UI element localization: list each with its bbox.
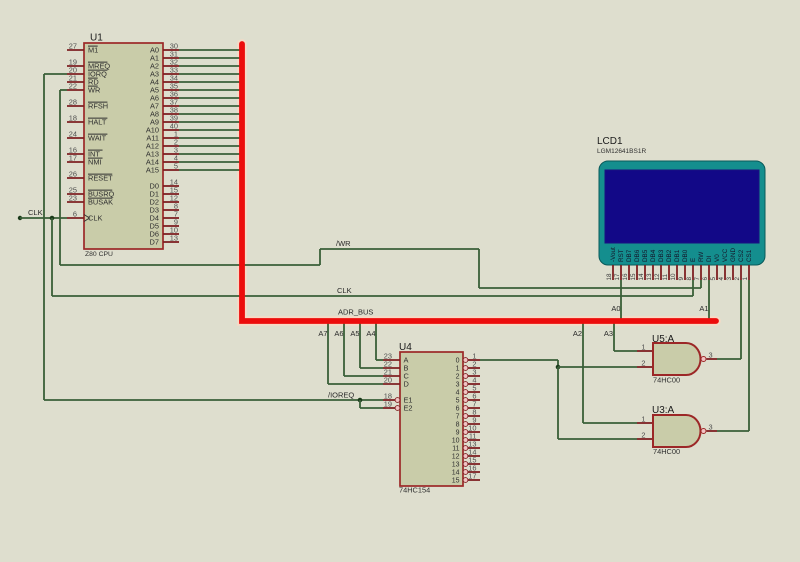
svg-text:CLK: CLK — [337, 286, 352, 295]
svg-text:16: 16 — [622, 273, 629, 281]
svg-text:E: E — [690, 258, 697, 262]
U4 pin 3 output 2 — [463, 374, 468, 379]
U4 pin 22 B — [383, 367, 400, 369]
svg-text:8: 8 — [456, 422, 460, 429]
wire A6 from bus down — [343, 322, 345, 376]
U4 pin 2 output 1 — [463, 366, 468, 371]
wire A7 to U4 — [328, 383, 383, 385]
svg-text:3: 3 — [709, 423, 713, 432]
wire A11 from U1 to address bus — [179, 137, 240, 139]
svg-text:7: 7 — [456, 414, 460, 421]
U4 pin 19 E2 (active low) — [383, 407, 395, 409]
U4 pin 23 A — [383, 359, 400, 361]
svg-text:13: 13 — [452, 462, 460, 469]
wire A2 from bus down — [582, 322, 584, 423]
U4 pin 18 E1 (active low) — [383, 399, 395, 401]
wire A3 from U1 to address bus — [179, 73, 240, 75]
svg-text:A1: A1 — [699, 304, 708, 313]
wire to U3 input 2 — [558, 438, 637, 440]
U4 pin 16 output 14 — [463, 470, 468, 475]
svg-text:V0: V0 — [714, 254, 721, 262]
wire A7 from bus down — [327, 322, 329, 384]
svg-text:RST: RST — [618, 249, 625, 262]
svg-text:20: 20 — [384, 376, 392, 385]
U4 pin 5 output 4 — [463, 390, 468, 395]
svg-text:A3: A3 — [604, 329, 613, 338]
wire IOREQ branch to U4 E2 — [360, 407, 383, 409]
wire WR step down — [478, 249, 480, 288]
svg-text:DI: DI — [706, 255, 713, 262]
LCD module LCD1 body — [599, 161, 765, 265]
U1 pin 9 D5 — [163, 225, 179, 227]
svg-text:12: 12 — [452, 454, 460, 461]
wire CLK net horizontal to LCD — [52, 295, 693, 297]
svg-text:/IOREQ: /IOREQ — [328, 391, 354, 400]
wire U3 output to CS1 vertical — [748, 280, 750, 431]
wire CLK up to LCD pin E — [692, 280, 694, 296]
svg-text:WR: WR — [88, 86, 100, 95]
U1 pin 34 A4 — [163, 81, 179, 83]
U1 pin 4 A14 — [163, 161, 179, 163]
wire WR horizontal 3 — [479, 287, 701, 289]
svg-text:DB7: DB7 — [626, 249, 633, 262]
U3:A input 2 stub — [637, 438, 653, 440]
wire A14 from U1 to address bus — [179, 161, 240, 163]
wire to U5 input 2 — [558, 366, 637, 368]
LCD1 pin 11 DB2 — [668, 265, 670, 280]
U1 pin 19 MREQ — [67, 65, 84, 67]
U1 pin 31 A1 — [163, 57, 179, 59]
address bus ADR_BUS — [242, 44, 716, 321]
wire A0 from U1 to address bus — [179, 49, 240, 51]
svg-text:4: 4 — [718, 277, 725, 281]
wire output 0 jog down — [557, 360, 559, 367]
svg-text:Z80 CPU: Z80 CPU — [85, 251, 113, 258]
U4 pin 9 output 8 — [463, 422, 468, 427]
U4 pin 17 output 15 — [463, 478, 468, 483]
svg-text:11: 11 — [452, 446, 459, 453]
svg-text:13: 13 — [646, 273, 653, 281]
U4 pin 4 output 3 — [463, 382, 468, 387]
svg-text:26: 26 — [69, 170, 77, 179]
svg-text:D: D — [404, 380, 409, 389]
svg-text:HALT: HALT — [88, 118, 107, 127]
U1 pin 20 IORQ — [67, 73, 84, 75]
wire A5 from U1 to address bus — [179, 89, 240, 91]
wire A4 from bus down — [375, 322, 377, 360]
wire U4 output 0 right — [480, 359, 558, 361]
U5:A input 2 stub — [637, 366, 653, 368]
LCD1 pin 17 RST — [620, 265, 622, 280]
wire A12 from U1 to address bus — [179, 145, 240, 147]
U3:A input 1 stub — [637, 422, 653, 424]
svg-text:3: 3 — [709, 351, 713, 360]
svg-text:5: 5 — [174, 162, 178, 171]
svg-text:M1: M1 — [88, 46, 98, 55]
svg-text:DB5: DB5 — [642, 249, 649, 262]
svg-text:17: 17 — [69, 154, 77, 163]
svg-text:2: 2 — [641, 431, 645, 440]
svg-text:A15: A15 — [146, 166, 159, 175]
U1 pin 28 RFSH — [67, 105, 84, 107]
wire A15 from U1 to address bus — [179, 169, 240, 171]
svg-text:NMI: NMI — [88, 158, 102, 167]
junction at IOREQ E2 branch — [358, 398, 363, 403]
svg-text:WAIT: WAIT — [88, 134, 107, 143]
svg-text:RESET: RESET — [88, 174, 113, 183]
svg-text:9: 9 — [456, 430, 460, 437]
U4 pin 20 D — [383, 383, 400, 385]
svg-text:24: 24 — [69, 130, 77, 139]
U1 pin 32 A2 — [163, 65, 179, 67]
svg-text:DB3: DB3 — [658, 249, 665, 262]
svg-text:6: 6 — [73, 210, 77, 219]
svg-text:17: 17 — [614, 273, 621, 281]
U1 pin 33 A3 — [163, 73, 179, 75]
svg-text:0: 0 — [456, 358, 460, 365]
svg-text:DB0: DB0 — [682, 249, 689, 262]
U4 pin 13 output 11 — [463, 446, 468, 451]
LCD1 pin 16 DB7 — [628, 265, 630, 280]
svg-text:-Vout: -Vout — [610, 247, 617, 262]
svg-text:DB1: DB1 — [674, 249, 681, 262]
svg-text:D7: D7 — [150, 238, 159, 247]
svg-text:U5:A: U5:A — [652, 334, 675, 345]
U1 pin 21 RD — [67, 81, 84, 83]
wire A9 from U1 to address bus — [179, 121, 240, 123]
svg-text:VCC: VCC — [722, 248, 729, 262]
U1 pin 6 CLK — [67, 217, 84, 219]
svg-text:5: 5 — [710, 277, 717, 281]
LCD1 pin 13 DB4 — [652, 265, 654, 280]
U3:A output stub — [707, 430, 718, 432]
LCD1 pin 3 GND — [732, 265, 734, 280]
wire WR horizontal 1 — [60, 264, 320, 266]
U5:A output bubble — [701, 357, 706, 362]
svg-text:A7: A7 — [318, 329, 327, 338]
svg-text:14: 14 — [452, 470, 460, 477]
svg-text:15: 15 — [630, 273, 637, 281]
wire A6 to U4 — [344, 375, 383, 377]
LCD1 pin 4 VCC — [724, 265, 726, 280]
LCD1 pin 10 DB1 — [676, 265, 678, 280]
svg-text:RFSH: RFSH — [88, 102, 108, 111]
svg-text:CS1: CS1 — [746, 249, 753, 262]
svg-text:12: 12 — [654, 273, 661, 281]
svg-text:A0: A0 — [611, 304, 620, 313]
svg-text:DB2: DB2 — [666, 249, 673, 262]
U4 pin 1 output 0 — [463, 358, 468, 363]
U1 pin 30 A0 — [163, 49, 179, 51]
U1 pin 7 D4 — [163, 217, 179, 219]
svg-text:2: 2 — [456, 374, 460, 381]
junction at CLK branch — [50, 216, 55, 221]
wire A13 from U1 to address bus — [179, 153, 240, 155]
wire IOREQ vertical down — [43, 74, 45, 400]
svg-text:7: 7 — [694, 277, 701, 281]
svg-text:RW: RW — [698, 252, 705, 262]
NAND gate U3:A body — [653, 415, 701, 447]
svg-text:U3:A: U3:A — [652, 405, 675, 416]
svg-text:U4: U4 — [399, 342, 412, 353]
svg-text:17: 17 — [468, 472, 476, 481]
LCD screen — [605, 170, 759, 243]
svg-text:GND: GND — [730, 248, 737, 262]
U1 pin 12 D2 — [163, 201, 179, 203]
svg-text:9: 9 — [678, 277, 685, 281]
U1 pin 39 A9 — [163, 121, 179, 123]
input terminal dot CLK — [18, 216, 22, 220]
svg-text:15: 15 — [452, 478, 460, 485]
LCD1 pin 1 CS1 — [748, 265, 750, 280]
svg-text:10: 10 — [452, 438, 460, 445]
svg-text:10: 10 — [670, 273, 677, 281]
svg-text:ADR_BUS: ADR_BUS — [338, 308, 373, 317]
LCD1 pin 5 V0 — [716, 265, 718, 280]
wire A8 from U1 to address bus — [179, 113, 240, 115]
svg-text:3: 3 — [456, 382, 460, 389]
svg-text:19: 19 — [384, 400, 392, 409]
svg-text:74HC00: 74HC00 — [653, 447, 680, 456]
wire U5 output to CS2 vertical — [740, 280, 742, 359]
wire A1 from U1 to address bus — [179, 57, 240, 59]
wire A3 to U5 input 1 — [614, 350, 637, 352]
svg-text:1: 1 — [641, 343, 645, 352]
wire CLK branch down — [51, 218, 53, 296]
svg-text:18: 18 — [69, 114, 77, 123]
LCD1 pin 2 CS2 — [740, 265, 742, 280]
LCD1 pin 18 -Vout — [612, 265, 614, 280]
U4 pin 11 output 10 — [463, 438, 468, 443]
U1 pin 23 BUSAK — [67, 201, 84, 203]
svg-text:14: 14 — [638, 273, 645, 281]
svg-text:1: 1 — [742, 277, 749, 281]
U4 pin 14 output 12 — [463, 454, 468, 459]
U3:A output bubble — [701, 429, 706, 434]
wire U3 output to CS1 horizontal — [717, 430, 749, 432]
U1 pin 10 D6 — [163, 233, 179, 235]
U1 pin 22 WR — [67, 89, 84, 91]
svg-text:1: 1 — [641, 415, 645, 424]
svg-text:CLK: CLK — [28, 208, 43, 217]
wire CLK terminal to U1 CLK pin — [20, 217, 67, 219]
U1 pin 37 A7 — [163, 105, 179, 107]
svg-text:23: 23 — [69, 194, 77, 203]
wire A2 to U3 input 1 — [583, 422, 637, 424]
svg-text:13: 13 — [170, 234, 178, 243]
svg-text:A4: A4 — [366, 329, 375, 338]
svg-text:18: 18 — [606, 273, 613, 281]
wire A10 from U1 to address bus — [179, 129, 240, 131]
U5:A output stub — [707, 358, 718, 360]
wire A0 LCD RST to bus — [620, 280, 622, 320]
wire WR step up — [319, 249, 321, 265]
NAND gate U5:A body — [653, 343, 701, 375]
U4 pin 21 C — [383, 375, 400, 377]
U1 pin 38 A8 — [163, 113, 179, 115]
wire A5 to U4 — [360, 367, 383, 369]
LCD1 pin 8 E — [692, 265, 694, 280]
LCD1 pin 9 DB0 — [684, 265, 686, 280]
U1 pin 14 D0 — [163, 185, 179, 187]
svg-text:74HC00: 74HC00 — [653, 376, 680, 385]
wire IOREQ horizontal to U4 E1 — [44, 399, 383, 401]
U4 pin 10 output 9 — [463, 430, 468, 435]
wire A4 from U1 to address bus — [179, 81, 240, 83]
U1 pin 15 D1 — [163, 193, 179, 195]
svg-text:/WR: /WR — [336, 239, 351, 248]
U1 pin 5 A15 — [163, 169, 179, 171]
U1 pin 2 A12 — [163, 145, 179, 147]
wire A4 to U4 — [376, 359, 383, 361]
wire A6 from U1 to address bus — [179, 97, 240, 99]
wire A3 from bus down — [613, 322, 615, 351]
wire IOREQ branch down — [359, 400, 361, 408]
svg-text:E2: E2 — [404, 404, 413, 413]
U4 pin 6 output 5 — [463, 398, 468, 403]
LCD1 pin 14 DB5 — [644, 265, 646, 280]
LCD1 pin 15 DB6 — [636, 265, 638, 280]
wire WR vertical down — [59, 90, 61, 265]
U1 pin 13 D7 — [163, 241, 179, 243]
svg-text:11: 11 — [662, 273, 669, 280]
U1 pin 24 WAIT — [67, 137, 84, 139]
svg-text:22: 22 — [69, 82, 77, 91]
svg-text:74HC154: 74HC154 — [399, 486, 430, 495]
U1 pin 16 INT — [67, 153, 84, 155]
U4 pin 15 output 13 — [463, 462, 468, 467]
svg-text:5: 5 — [456, 398, 460, 405]
wire branch down to U3 — [557, 367, 559, 439]
wire A1 LCD DI to bus — [708, 280, 710, 320]
wire A2 from U1 to address bus — [179, 65, 240, 67]
U4 pin 7 output 6 — [463, 406, 468, 411]
svg-text:4: 4 — [456, 390, 460, 397]
LCD1 pin 7 RW — [700, 265, 702, 280]
svg-text:DB4: DB4 — [650, 249, 657, 262]
svg-text:DB6: DB6 — [634, 249, 641, 262]
U1 pin 17 NMI — [67, 161, 84, 163]
wire A7 from U1 to address bus — [179, 105, 240, 107]
svg-text:8: 8 — [686, 277, 693, 281]
U5:A input 1 stub — [637, 350, 653, 352]
U1 pin 18 HALT — [67, 121, 84, 123]
svg-text:27: 27 — [69, 42, 77, 51]
svg-text:A2: A2 — [573, 329, 582, 338]
LCD1 pin 12 DB3 — [660, 265, 662, 280]
wire WR horizontal 2 — [320, 248, 479, 250]
svg-text:6: 6 — [702, 277, 709, 281]
svg-text:1: 1 — [456, 366, 460, 373]
svg-text:28: 28 — [69, 98, 77, 107]
svg-text:LCD1: LCD1 — [597, 136, 623, 147]
U1 pin 25 BUSRQ — [67, 193, 84, 195]
U1 pin 1 A11 — [163, 137, 179, 139]
U1 pin 26 RESET — [67, 177, 84, 179]
U1 pin 8 D3 — [163, 209, 179, 211]
U1 pin 36 A6 — [163, 97, 179, 99]
LCD1 pin 6 DI — [708, 265, 710, 280]
wire WR pin left stub — [60, 89, 67, 91]
junction at U5/U3 input branch — [556, 365, 561, 370]
svg-text:A5: A5 — [350, 329, 359, 338]
IC body U4 74HC154 — [400, 352, 463, 486]
wire IORQ pin left stub — [44, 73, 67, 75]
U1 pin 3 A13 — [163, 153, 179, 155]
svg-text:BUSAK: BUSAK — [88, 198, 113, 207]
wire A5 from bus down — [359, 322, 361, 368]
svg-text:3: 3 — [726, 277, 733, 281]
IC body U1 Z80 CPU — [84, 43, 163, 249]
svg-text:6: 6 — [456, 406, 460, 413]
address bus halo — [242, 44, 716, 321]
U1 pin 27 M1 — [67, 49, 84, 51]
svg-text:LGM12641BS1R: LGM12641BS1R — [597, 148, 646, 155]
svg-text:2: 2 — [641, 359, 645, 368]
U1 pin 40 A10 — [163, 129, 179, 131]
svg-text:2: 2 — [734, 277, 741, 281]
svg-text:CS2: CS2 — [738, 249, 745, 262]
U4 pin 8 output 7 — [463, 414, 468, 419]
U1 pin 35 A5 — [163, 89, 179, 91]
svg-text:U1: U1 — [90, 33, 103, 44]
wire WR up to LCD pin RW — [700, 280, 702, 288]
svg-text:A6: A6 — [334, 329, 343, 338]
wire U5 output to CS2 horizontal — [717, 358, 741, 360]
